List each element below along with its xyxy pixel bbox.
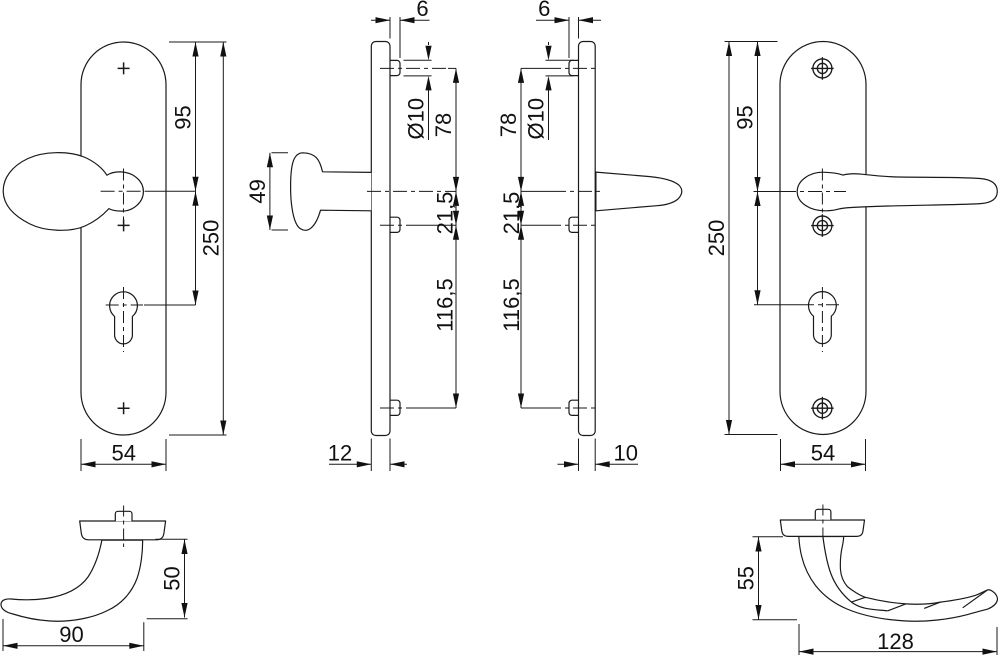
screw head top fig4 — [811, 57, 834, 80]
svg-text:Ø10: Ø10 — [524, 98, 549, 140]
extension lines dia10 fig2 — [404, 60, 432, 76]
dimension line 95 fig1 — [195, 42, 197, 305]
svg-text:128: 128 — [877, 629, 914, 654]
extension lines 6 fig2 — [390, 17, 400, 58]
svg-text:250: 250 — [198, 220, 223, 257]
dimension dia10 fig3 — [548, 42, 550, 140]
backplate outline fig4 — [780, 42, 866, 435]
extension line bottom fig1 — [169, 434, 227, 436]
dimension line 128 fig6 — [799, 651, 997, 653]
extension lines 55 fig6 — [753, 537, 798, 620]
svg-text:78: 78 — [496, 113, 521, 137]
rose top view fig5 — [80, 521, 166, 540]
centerline vertical lever fig4 — [821, 169, 823, 213]
centerline vertical knob fig1 — [123, 169, 125, 229]
centerline vertical fig6 — [822, 505, 824, 537]
centerline horizontal keyhole fig4 — [754, 304, 841, 306]
plate side profile fig3 — [579, 42, 596, 436]
extension lines 54 fig1 — [81, 439, 166, 471]
svg-text:116,5: 116,5 — [433, 278, 458, 331]
dimension line 78/21,5/116,5 fig3 — [520, 68, 522, 408]
extension line bottom fig4 — [725, 434, 778, 436]
fig4: front view lever backplate — [704, 42, 997, 472]
dimension line 90 fig5 — [3, 645, 144, 647]
dimension dia10 fig2 — [428, 42, 430, 140]
centerline boss top fig3 — [521, 67, 599, 69]
spindle top view fig5 — [115, 511, 132, 521]
centerline boss middle fig3 — [521, 224, 599, 226]
svg-text:6: 6 — [538, 0, 550, 21]
centerline lever axis fig3 — [521, 190, 600, 192]
lever handle with neck ball fig4 — [797, 172, 997, 211]
lever grip end profile fig3 — [596, 172, 682, 211]
fig1: front view knob backplate — [3, 42, 226, 471]
svg-text:21,5: 21,5 — [433, 192, 458, 235]
svg-text:55: 55 — [734, 566, 759, 590]
dimension line 55 fig6 — [758, 537, 760, 620]
extension lines dia10 fig3 — [546, 60, 574, 76]
centerline boss middle fig2 — [380, 224, 456, 226]
svg-text:90: 90 — [59, 622, 83, 647]
screw head middle fig4 — [811, 214, 834, 237]
centerline boss bottom fig2 — [380, 407, 456, 409]
extension lines 6 fig3 — [569, 17, 579, 58]
centerline vertical keyhole fig1 — [123, 287, 125, 352]
svg-text:78: 78 — [431, 113, 456, 137]
centerline vertical keyhole fig4 — [821, 287, 823, 352]
dimension line 78/21,5/116,5 fig2 — [455, 68, 457, 408]
extension lines 49 fig2 — [272, 153, 289, 230]
dimension line 54 fig4 — [781, 463, 866, 465]
fig2: side view knob plate — [245, 0, 459, 471]
fig5: top view knob — [1, 506, 188, 652]
svg-text:12: 12 — [328, 441, 352, 466]
fig6: top view lever handle — [734, 505, 998, 656]
fixing boss top fig2 — [390, 60, 400, 75]
screw cross bottom fig1 — [118, 402, 130, 414]
centerline vertical fig5 — [123, 506, 125, 548]
svg-text:6: 6 — [416, 0, 428, 21]
extension line top fig1 — [169, 41, 227, 43]
screw cross middle fig1 — [118, 219, 130, 231]
dimension line 95 fig4 — [757, 42, 759, 305]
extension lines 90 fig5 — [3, 619, 144, 651]
fixing boss bottom fig3 — [569, 400, 579, 415]
knob with neck bump fig1 — [3, 153, 143, 231]
dimension 6 fig3 — [536, 19, 601, 21]
svg-text:10: 10 — [614, 441, 638, 466]
dimension 6 fig2 — [371, 19, 430, 21]
knob side profile fig2 — [291, 153, 372, 230]
centerline horizontal keyhole fig1 — [106, 304, 196, 306]
svg-text:21,5: 21,5 — [499, 192, 524, 235]
svg-text:54: 54 — [811, 440, 835, 465]
svg-text:116,5: 116,5 — [499, 278, 524, 331]
centerline boss bottom fig3 — [521, 407, 599, 409]
extension lines 54 fig4 — [781, 439, 866, 471]
centerline knob axis fig2 — [367, 190, 456, 192]
svg-text:50: 50 — [160, 566, 185, 590]
centerline boss top fig2 — [380, 67, 456, 69]
svg-text:54: 54 — [111, 440, 135, 465]
dimension 12 fig2 — [329, 463, 407, 465]
dimension line 50 fig5 — [184, 540, 186, 618]
fixing boss top fig3 — [569, 60, 579, 75]
extension lines 128 fig6 — [799, 624, 997, 655]
grip ridge line fig6 — [823, 537, 888, 611]
svg-text:95: 95 — [733, 105, 758, 129]
dimension line 54 fig1 — [81, 463, 166, 465]
spindle top view fig6 — [815, 509, 831, 520]
dimension line 49 fig2 — [269, 153, 271, 230]
extension lines 10 fig3 — [579, 439, 596, 472]
extension line top fig4 — [725, 41, 778, 43]
knob body top view fig5 — [1, 540, 143, 621]
grip wave facet lines fig6 — [851, 590, 987, 611]
screw cross top fig1 — [118, 62, 130, 74]
backplate outline fig1 — [81, 42, 166, 435]
dimension 10 fig3 — [558, 463, 639, 465]
fixing boss middle fig2 — [390, 217, 400, 232]
euro profile keyhole fig1 — [110, 292, 138, 344]
fixing boss middle fig3 — [569, 217, 579, 232]
rose top view fig6 — [780, 520, 864, 536]
plate side profile fig2 — [371, 42, 390, 436]
screw head bottom fig4 — [811, 397, 834, 420]
dimension line 250 fig4 — [728, 42, 730, 435]
euro profile keyhole fig4 — [809, 292, 837, 344]
svg-text:95: 95 — [171, 105, 196, 129]
centerline horizontal lever fig4 — [754, 191, 847, 193]
fixing boss bottom fig2 — [390, 400, 400, 415]
extension lines 50 fig5 — [147, 539, 188, 619]
centerline horizontal knob fig1 — [101, 190, 196, 192]
dimension line 250 fig1 — [222, 42, 224, 435]
lever body top view fig6 — [799, 537, 998, 622]
svg-text:250: 250 — [704, 220, 729, 257]
svg-text:49: 49 — [245, 179, 270, 203]
fig3: side view lever plate — [496, 0, 682, 471]
svg-text:Ø10: Ø10 — [404, 98, 429, 140]
extension lines 12 fig2 — [371, 439, 390, 472]
